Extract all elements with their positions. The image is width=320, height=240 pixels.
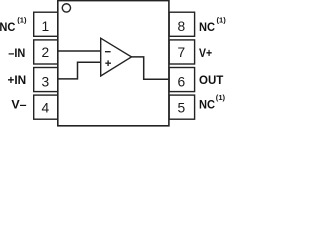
svg-text:NC: NC bbox=[199, 98, 215, 112]
label NC pin 8 bbox=[199, 15, 226, 34]
pin 3 box bbox=[34, 68, 58, 92]
pin 4 box bbox=[34, 95, 58, 119]
svg-text:3: 3 bbox=[42, 74, 50, 89]
pin 8 box bbox=[169, 12, 194, 36]
svg-text:2: 2 bbox=[42, 45, 50, 60]
wire OUT from op-amp to pin 6 bbox=[132, 57, 170, 79]
svg-text:(1): (1) bbox=[216, 93, 226, 102]
pin 5 box bbox=[169, 95, 194, 119]
op-amp non-inverting input plus symbol bbox=[105, 60, 111, 66]
svg-text:V+: V+ bbox=[199, 46, 212, 60]
svg-text:(1): (1) bbox=[17, 15, 27, 24]
svg-text:4: 4 bbox=[42, 101, 50, 116]
pin 1 box bbox=[34, 12, 58, 36]
label NC pin 1 bbox=[0, 15, 27, 34]
svg-text:7: 7 bbox=[178, 45, 186, 60]
svg-text:NC: NC bbox=[199, 20, 215, 34]
svg-text:OUT: OUT bbox=[199, 73, 224, 87]
pin 2 box bbox=[34, 40, 58, 64]
IC body U1 bbox=[58, 1, 169, 126]
svg-text:8: 8 bbox=[178, 19, 186, 34]
wire +IN input from pin 3 to op-amp bbox=[58, 62, 101, 79]
svg-text:+IN: +IN bbox=[8, 73, 27, 87]
svg-text:NC: NC bbox=[0, 20, 16, 34]
pin-1 indicator circle bbox=[62, 4, 70, 12]
label NC pin 5 bbox=[199, 93, 226, 112]
svg-text:–IN: –IN bbox=[8, 46, 25, 60]
svg-text:1: 1 bbox=[42, 19, 50, 34]
pin 7 box bbox=[169, 40, 194, 64]
svg-text:6: 6 bbox=[178, 74, 186, 89]
op-amp inverting input minus symbol bbox=[105, 51, 111, 53]
svg-text:5: 5 bbox=[178, 101, 186, 116]
op-amp A1 triangle bbox=[101, 38, 132, 76]
pin 6 box bbox=[169, 68, 194, 92]
svg-text:(1): (1) bbox=[217, 15, 227, 24]
svg-text:V–: V– bbox=[11, 98, 26, 112]
wire -IN input from pin 2 to op-amp bbox=[58, 50, 101, 52]
